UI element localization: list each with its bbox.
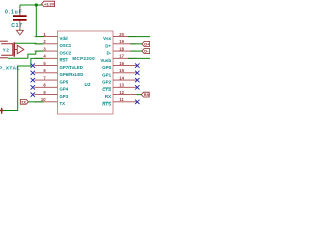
global label D-	[142, 49, 150, 54]
no-connect pin 6	[31, 71, 35, 75]
svg-text:D+: D+	[105, 43, 111, 48]
svg-text:13: 13	[119, 83, 124, 88]
svg-text:P_XTAL: P_XTAL	[0, 65, 20, 71]
svg-text:GP0: GP0	[102, 65, 112, 70]
wire Vss to right edge	[128, 36, 150, 38]
svg-text:RX: RX	[105, 94, 111, 99]
pin 9 stub	[35, 94, 58, 96]
svg-text:18: 18	[119, 46, 124, 51]
capacitor C17 top lead	[19, 8, 21, 16]
global label D+	[142, 41, 150, 46]
svg-text:TX: TX	[60, 101, 66, 106]
pin 18 stub	[113, 50, 137, 52]
wire OSC2 to pin 3	[8, 51, 44, 58]
svg-text:GP4: GP4	[60, 87, 69, 92]
junction node +3.3V	[35, 3, 38, 6]
capacitor C17 bottom lead	[19, 20, 21, 28]
pin 4 stub	[35, 57, 58, 59]
svg-text:OSC1: OSC1	[60, 43, 72, 48]
svg-text:20: 20	[119, 32, 124, 37]
svg-text:17: 17	[119, 54, 124, 59]
pin 7 stub	[35, 79, 58, 81]
overline RTS	[103, 101, 111, 103]
svg-text:15: 15	[119, 68, 124, 73]
pin 13 stub	[113, 86, 137, 88]
resonator Y2 bottom pin stub	[0, 57, 8, 59]
svg-text:19: 19	[119, 39, 124, 44]
svg-text:Vusb: Vusb	[100, 58, 111, 63]
pin 19 stub	[113, 43, 137, 45]
no-connect pin 7	[31, 78, 35, 82]
wire Vdd junction to pin 1	[36, 5, 44, 37]
wire RX	[137, 94, 142, 96]
wire OSC1 to pin 2	[15, 42, 44, 45]
svg-text:10: 10	[41, 97, 46, 102]
off-page pin stub left edge	[0, 108, 3, 114]
no-connect pin 5	[31, 63, 35, 67]
pin 14 stub	[113, 79, 137, 81]
overline RST	[60, 58, 68, 60]
wire D-	[130, 50, 142, 52]
svg-text:D-: D-	[144, 49, 149, 54]
svg-text:12: 12	[119, 90, 124, 95]
svg-text:TX: TX	[21, 100, 26, 104]
global label TX	[20, 100, 28, 105]
wire +3.3V rail horizontal	[20, 4, 42, 6]
svg-text:OSC2: OSC2	[60, 50, 72, 55]
global label RX	[141, 92, 149, 97]
svg-text:11: 11	[119, 97, 124, 102]
svg-text:Vss: Vss	[103, 36, 112, 41]
svg-text:Y2: Y2	[3, 48, 10, 53]
resonator Y2 plate bar	[13, 42, 15, 56]
capacitor C17 plates	[13, 16, 27, 20]
pin 3 stub	[35, 50, 58, 52]
pin 15 stub	[113, 72, 137, 74]
pin 5 stub	[35, 65, 58, 67]
no-connect pin 14	[135, 78, 139, 82]
no-connect pin 11	[135, 100, 139, 104]
wire Vusb to right edge	[128, 57, 150, 59]
wire to ground	[19, 29, 21, 31]
pin 1 stub	[35, 36, 58, 38]
pin 8 stub	[35, 86, 58, 88]
pin 20 stub	[113, 36, 137, 38]
no-connect pin 15	[135, 71, 139, 75]
wire TX to pin 10	[28, 101, 43, 103]
ground symbol	[16, 30, 23, 35]
svg-text:16: 16	[119, 61, 124, 66]
svg-text:GP1: GP1	[102, 72, 112, 77]
overline CTS	[103, 87, 111, 89]
no-connect pin 9	[31, 92, 35, 96]
svg-text:GP5: GP5	[60, 79, 69, 84]
svg-text:D-: D-	[106, 51, 111, 56]
wire D+	[130, 43, 142, 45]
no-connect pin 16	[135, 63, 139, 67]
svg-text:GP2: GP2	[102, 80, 112, 85]
svg-text:+3.3V: +3.3V	[44, 1, 55, 6]
svg-text:D+: D+	[144, 41, 150, 46]
svg-text:GP6/RxLED: GP6/RxLED	[60, 72, 84, 77]
resonator Y2 top pin stub	[0, 40, 8, 42]
svg-text:C17: C17	[11, 23, 22, 29]
pin 10 stub	[35, 101, 58, 103]
power label +3.3V	[42, 1, 55, 6]
no-connect pin 8	[31, 85, 35, 89]
pin 12 stub	[113, 94, 137, 96]
svg-text:U2: U2	[85, 82, 92, 87]
svg-text:Vdd: Vdd	[60, 36, 68, 41]
pin 11 stub	[113, 101, 137, 103]
svg-text:RX: RX	[144, 93, 150, 97]
resonator Y2 body box	[1, 44, 13, 55]
no-connect pin 13	[135, 85, 139, 89]
svg-text:14: 14	[119, 75, 124, 80]
wire capacitor C17 top	[19, 5, 21, 8]
svg-text:GP3: GP3	[60, 94, 69, 99]
pin 6 stub	[35, 72, 58, 74]
pin 2 stub	[35, 43, 58, 45]
wire RST net	[3, 58, 44, 110]
pin 17 stub	[113, 57, 137, 59]
resonator Y2 tick	[15, 49, 17, 51]
chip U2 body	[58, 31, 114, 114]
svg-text:0.1uF: 0.1uF	[5, 10, 23, 16]
pin 16 stub	[113, 65, 137, 67]
resonator Y2 triangle	[17, 45, 24, 54]
svg-text:GP7/TxLED: GP7/TxLED	[60, 65, 83, 70]
svg-text:MCP2200: MCP2200	[72, 56, 95, 61]
